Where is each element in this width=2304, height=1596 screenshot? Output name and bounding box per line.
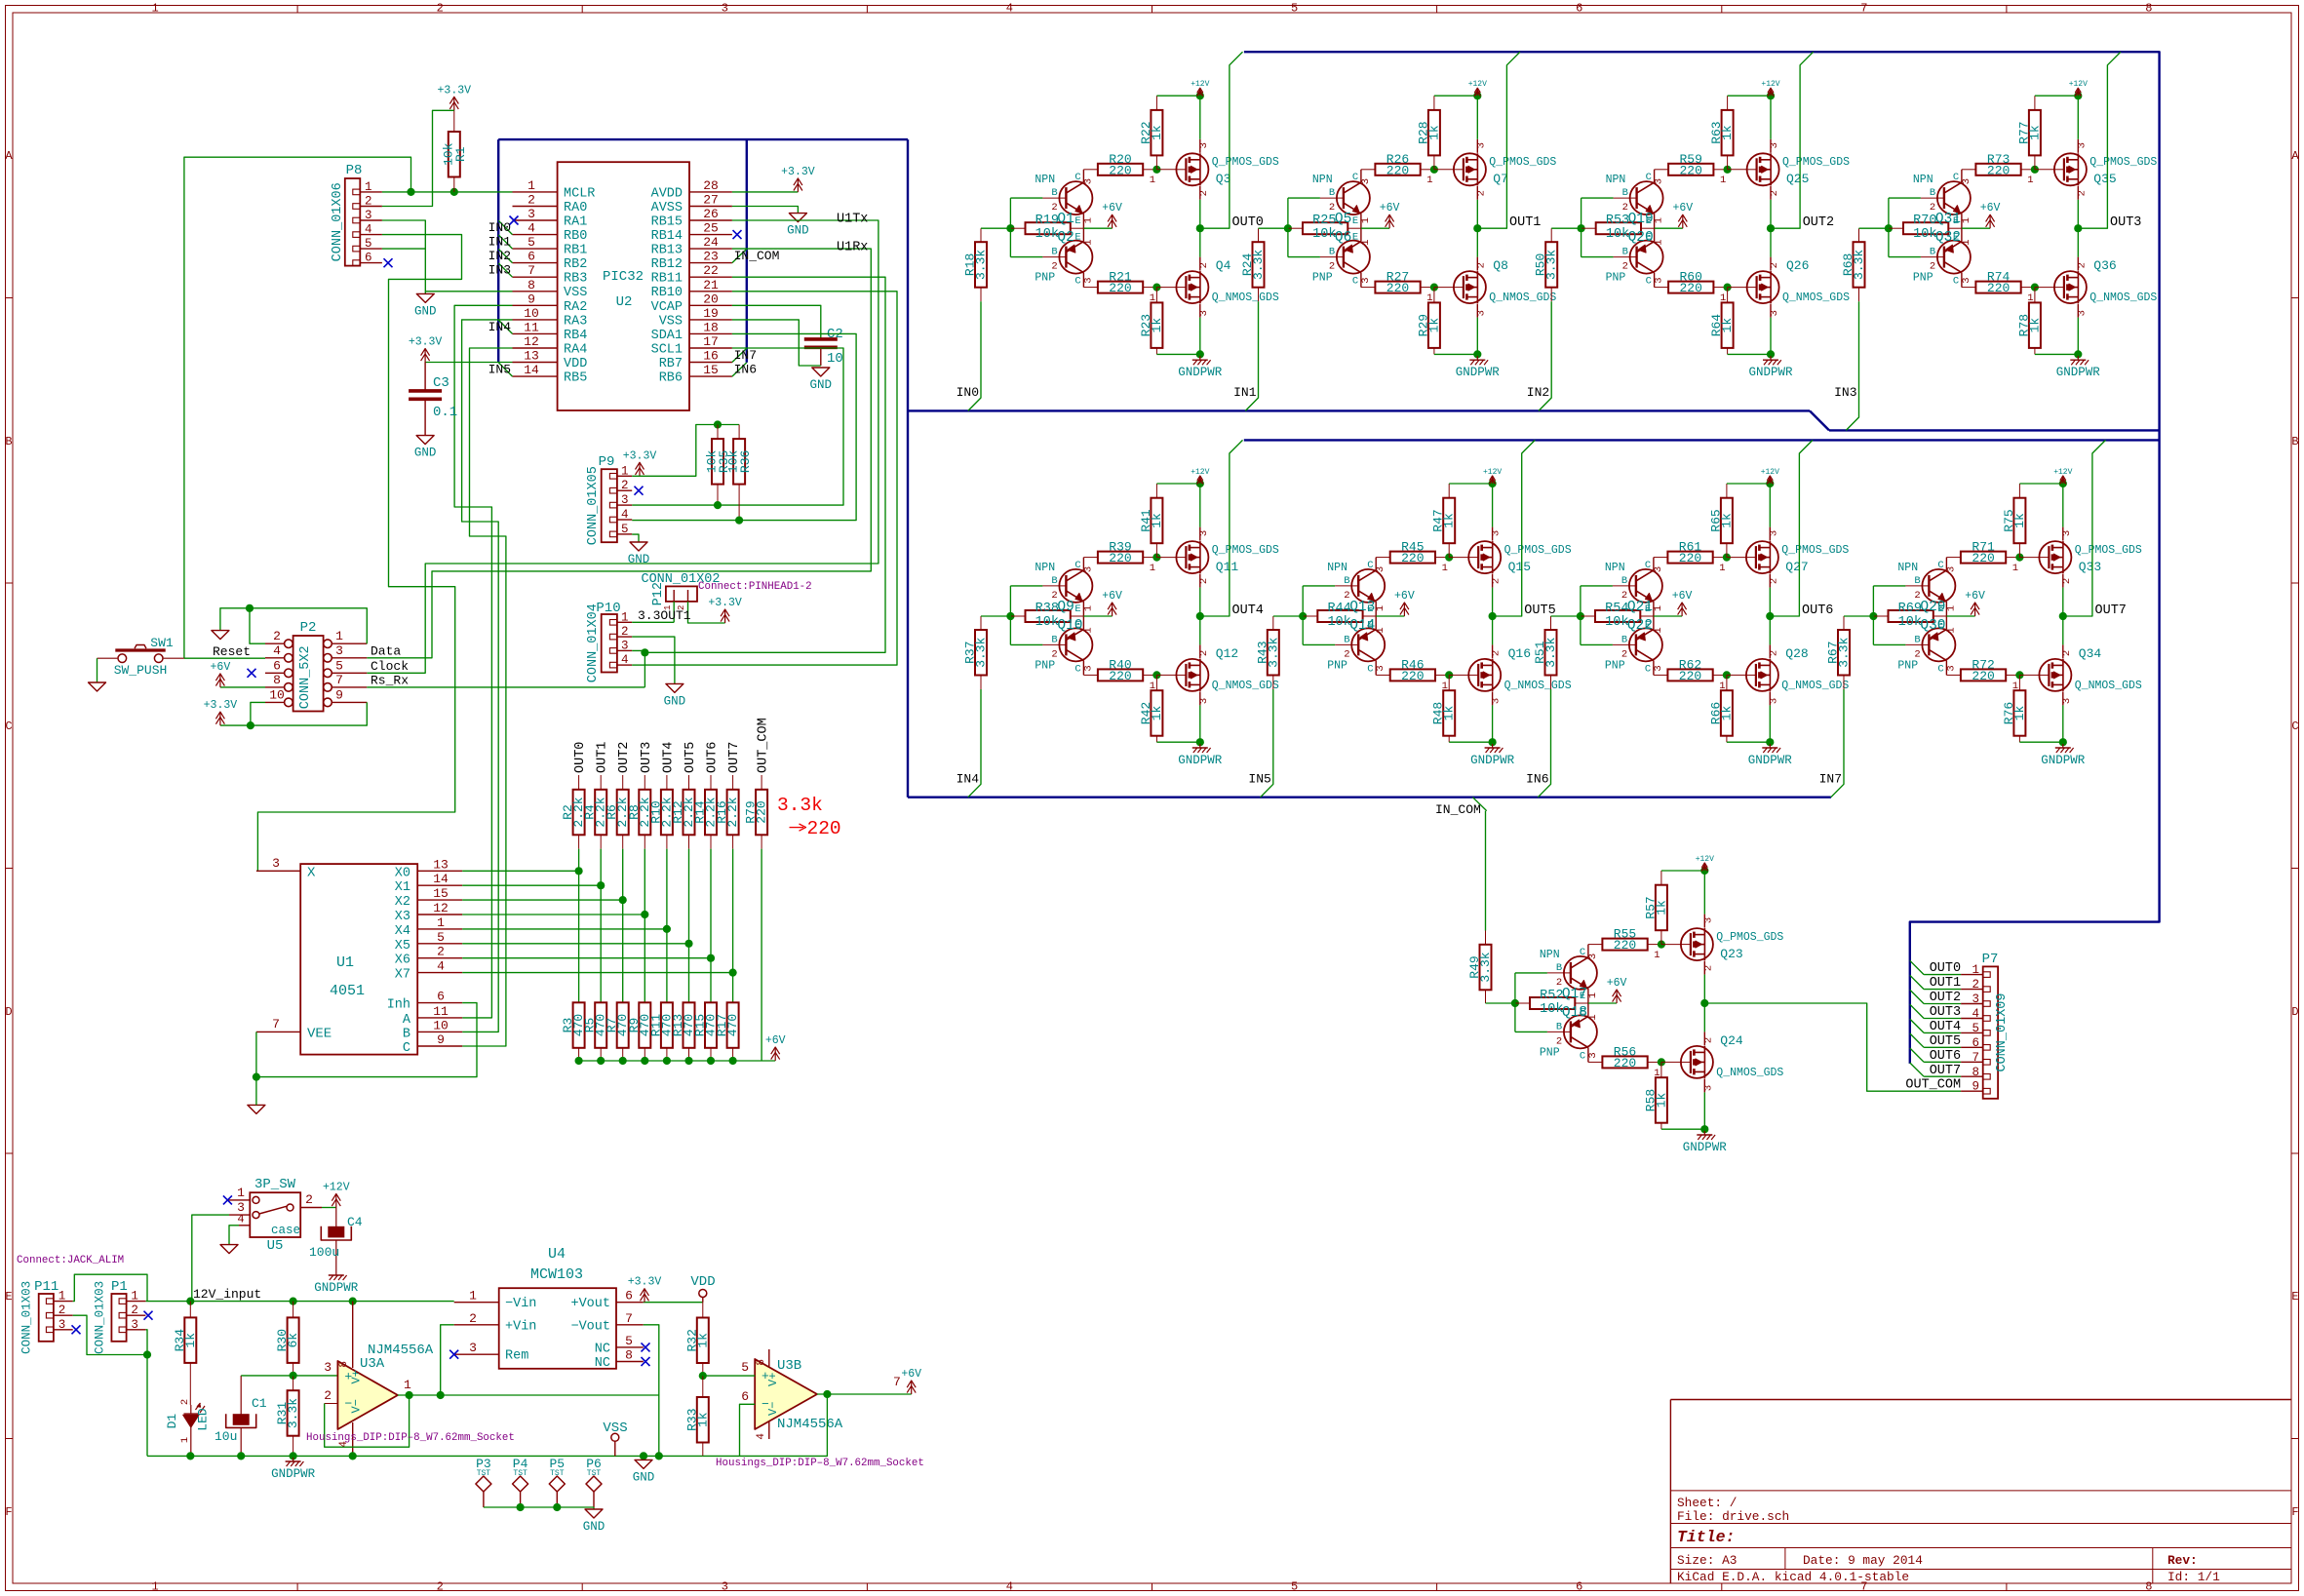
svg-text:3: 3 — [1653, 665, 1664, 671]
ground GNDPWR (block 3) — [1748, 356, 1793, 379]
svg-text:RB14: RB14 — [651, 229, 683, 244]
svg-text:Q_PMOS_GDS: Q_PMOS_GDS — [2089, 156, 2157, 169]
svg-text:E: E — [1645, 619, 1651, 631]
svg-text:GNDPWR: GNDPWR — [1470, 754, 1515, 767]
wire PMOS drain to OUT (block 5) — [1199, 588, 1201, 616]
transistor Q4 Q_NMOS_GDS (block 1) — [1150, 257, 1279, 318]
svg-text:1: 1 — [2027, 175, 2033, 186]
svg-text:C: C — [2291, 720, 2298, 733]
svg-text:Q_PMOS_GDS: Q_PMOS_GDS — [1781, 544, 1849, 557]
node OUT1 label — [1509, 215, 1541, 230]
svg-text:+12V: +12V — [1191, 80, 1209, 89]
resistor R57 1k (pull-up, block 9) — [1643, 871, 1668, 945]
svg-text:2: 2 — [365, 195, 372, 209]
svg-text:22: 22 — [703, 263, 719, 278]
ground GNDPWR at rail — [271, 1458, 316, 1481]
node IN2 label — [1527, 385, 1549, 400]
svg-text:E: E — [1367, 619, 1373, 631]
svg-text:Q_PMOS_GDS: Q_PMOS_GDS — [1489, 156, 1556, 169]
wire bus entry IN_COM at PIC right — [732, 249, 747, 262]
svg-text:2: 2 — [621, 625, 629, 639]
svg-text:Housings_DIP:DIP‒8_W7.62mm_Soc: Housings_DIP:DIP‒8_W7.62mm_Socket — [306, 1432, 515, 1444]
transistor Q7 Q_PMOS_GDS (block 2) — [1426, 139, 1556, 200]
junction OUT (block 5) — [1196, 612, 1204, 620]
wire U3A out — [398, 1394, 659, 1396]
junction GNDPWR wire (block 2) — [1473, 350, 1481, 358]
wire PMOS source to +12V (block 2) — [1476, 96, 1478, 139]
wire base vertical (block 6) — [1303, 586, 1335, 645]
node OUT4 label — [1232, 603, 1264, 618]
svg-text:220: 220 — [1972, 551, 1994, 565]
capacitor C2 10 — [804, 327, 843, 367]
svg-text:4: 4 — [365, 223, 372, 237]
svg-text:X: X — [307, 865, 316, 880]
power +6V at U3B — [901, 1368, 921, 1394]
wire RA3 to U1 B — [462, 320, 513, 1032]
junction gate top (block 6) — [1445, 554, 1453, 562]
svg-text:3.3k: 3.3k — [1266, 637, 1280, 667]
svg-text:1k: 1k — [1719, 706, 1734, 721]
resistor R58 1k (pull-down, block 9) — [1643, 1062, 1668, 1129]
switch SW1 SW_PUSH — [98, 636, 184, 678]
svg-text:GND: GND — [633, 1470, 655, 1484]
wire X2 from U1 — [462, 899, 623, 901]
svg-text:P7: P7 — [1982, 952, 1999, 967]
wire +Vout to VDD — [644, 1302, 703, 1304]
svg-text:7: 7 — [1860, 2, 1867, 16]
svg-text:OUT6: OUT6 — [1802, 603, 1833, 618]
svg-text:+12V: +12V — [2069, 80, 2088, 89]
svg-text:8: 8 — [625, 1348, 633, 1363]
svg-text:−Vout: −Vout — [570, 1319, 610, 1334]
transistor Q24 Q_NMOS_GDS (block 9) — [1654, 1032, 1783, 1092]
svg-text:220: 220 — [807, 818, 841, 839]
junction GNDPWR wire (block 4) — [2074, 350, 2082, 358]
capacitor C3 0.1 — [409, 363, 457, 436]
svg-text:C: C — [1645, 663, 1651, 675]
junction gate bottom (block 3) — [1724, 284, 1732, 292]
svg-text:OUT3: OUT3 — [640, 742, 654, 773]
svg-text:3.3k: 3.3k — [1251, 250, 1266, 280]
node OUT1 label at array — [596, 742, 610, 773]
svg-text:2: 2 — [2076, 190, 2088, 196]
node OUT2 label at P7 — [1930, 991, 1961, 1005]
resistor R68 3.3k (input, block 4) — [1841, 228, 1866, 301]
ground rail bottom — [147, 1455, 703, 1457]
svg-text:GND: GND — [628, 553, 650, 566]
resistor R76 1k (pull-down, block 8) — [2002, 675, 2027, 742]
svg-text:GND: GND — [787, 224, 809, 238]
svg-text:19: 19 — [703, 306, 719, 321]
svg-text:R19: R19 — [1035, 214, 1059, 228]
wire P9 pin1 to pull-up tops — [632, 425, 739, 477]
no-connect U4 pin3 Rem — [449, 1350, 458, 1359]
svg-text:+12V: +12V — [1761, 80, 1779, 89]
transistor Q14 PNP (block 6) — [1327, 616, 1386, 675]
svg-text:2: 2 — [1329, 202, 1335, 214]
junction gate top (block 1) — [1152, 166, 1160, 174]
svg-text:6: 6 — [527, 250, 535, 264]
svg-text:Q35: Q35 — [2093, 172, 2116, 186]
resistor R16 2.2k (array top) — [715, 775, 740, 849]
junction +6V rail col 2 — [619, 1057, 627, 1065]
svg-text:TST: TST — [477, 1469, 491, 1478]
svg-text:C: C — [1367, 663, 1373, 675]
wire R24 to bus entry (block 2) — [1245, 301, 1258, 410]
svg-text:1: 1 — [1720, 175, 1726, 186]
svg-text:GND: GND — [664, 694, 686, 708]
svg-text:X5: X5 — [395, 939, 410, 954]
svg-text:3: 3 — [365, 209, 372, 222]
svg-text:VCAP: VCAP — [651, 300, 683, 315]
svg-text:B: B — [1930, 187, 1935, 199]
svg-text:1: 1 — [1945, 605, 1957, 611]
junction gate bottom (block 7) — [1723, 671, 1731, 679]
transistor Q1 NPN (block 1) — [1035, 170, 1094, 228]
wire P2 pin10 to +3.3V — [220, 702, 265, 725]
svg-text:2: 2 — [437, 2, 444, 16]
svg-text:5: 5 — [741, 1360, 749, 1375]
svg-text:2: 2 — [324, 1388, 332, 1403]
svg-text:1: 1 — [1587, 993, 1599, 998]
svg-text:B: B — [1051, 634, 1057, 645]
svg-text:2: 2 — [131, 1304, 138, 1317]
node IN0 label at PIC — [488, 220, 511, 235]
svg-text:OUT3: OUT3 — [2110, 215, 2141, 230]
wire P10 pin3 branch down — [644, 652, 645, 687]
svg-text:1k: 1k — [2027, 125, 2042, 140]
junction GNDPWR wire (block 5) — [1196, 738, 1204, 746]
power +6V (block 9) — [1607, 977, 1627, 1003]
wire array column 0 upper — [578, 849, 580, 1003]
power +12V (block 3) — [1761, 80, 1779, 96]
svg-text:1: 1 — [131, 1290, 138, 1304]
svg-text:RA3: RA3 — [564, 314, 587, 329]
svg-text:V−: V− — [766, 1402, 780, 1416]
svg-text:3.3k: 3.3k — [1478, 952, 1493, 982]
svg-text:1k: 1k — [1150, 706, 1164, 721]
svg-text:2: 2 — [1768, 578, 1779, 584]
wire NMOS source to GNDPWR (block 7) — [1769, 705, 1771, 742]
wire +6V rail — [579, 1060, 776, 1062]
svg-text:B: B — [1556, 962, 1562, 974]
wire base vertical (block 5) — [1010, 586, 1042, 645]
node OUT6 label — [1802, 603, 1833, 618]
svg-text:B: B — [1344, 634, 1349, 645]
wire OUT riser (block 4) — [2078, 52, 2121, 228]
svg-text:1: 1 — [1426, 175, 1432, 186]
ground GNDPWR (block 2) — [1456, 356, 1501, 379]
node 12V_input label — [193, 1287, 261, 1302]
transistor Q11 Q_PMOS_GDS (block 5) — [1150, 527, 1279, 588]
svg-text:Rev:: Rev: — [2167, 1553, 2198, 1568]
resistor R43 3.3k (input, block 6) — [1255, 616, 1280, 689]
junction MCLR a — [407, 188, 414, 196]
svg-text:OUT2: OUT2 — [1930, 991, 1961, 1005]
junction P9 pin3/R35 — [714, 501, 722, 509]
svg-text:1: 1 — [1653, 627, 1664, 633]
svg-text:RA1: RA1 — [564, 215, 587, 230]
wire R37 to bus entry (block 5) — [968, 689, 981, 798]
svg-text:10k: 10k — [441, 142, 455, 166]
node OUT3 label at array — [640, 742, 654, 773]
svg-text:2: 2 — [437, 945, 445, 959]
wire R68 top to base node (block 4) — [1859, 227, 1889, 229]
svg-text:220: 220 — [1972, 669, 1994, 683]
junction OUT (block 3) — [1767, 224, 1775, 232]
svg-text:E: E — [1074, 603, 1080, 615]
svg-text:13: 13 — [524, 349, 539, 364]
svg-text:2: 2 — [1914, 648, 1920, 660]
svg-text:3: 3 — [1082, 178, 1094, 184]
svg-text:3: 3 — [1375, 665, 1386, 671]
svg-text:220: 220 — [1679, 551, 1701, 565]
svg-text:X7: X7 — [395, 968, 410, 983]
wire OUT riser (block 2) — [1477, 52, 1520, 228]
resistor R51 3.3k (input, block 7) — [1533, 616, 1558, 689]
junction base node (block 5) — [1006, 612, 1014, 620]
svg-text:GNDPWR: GNDPWR — [1748, 366, 1793, 379]
svg-text:2: 2 — [1556, 1035, 1562, 1047]
svg-text:E: E — [1645, 603, 1651, 615]
svg-text:R53: R53 — [1606, 214, 1629, 228]
resistor R66 1k (pull-down, block 7) — [1708, 675, 1734, 742]
svg-text:Q_PMOS_GDS: Q_PMOS_GDS — [2075, 544, 2142, 557]
svg-text:2: 2 — [1556, 977, 1562, 989]
svg-text:1: 1 — [1360, 239, 1372, 245]
svg-text:+3.3V: +3.3V — [409, 336, 443, 349]
resistor R22 1k (pull-up, block 1) — [1139, 96, 1164, 170]
svg-text:220: 220 — [1679, 281, 1701, 295]
bus row2 bottom edge — [908, 797, 1831, 798]
svg-text:5: 5 — [1972, 1022, 1979, 1035]
junction gate top (block 7) — [1723, 554, 1731, 562]
resistor R38 10k (base, block 5) — [1010, 602, 1084, 630]
svg-text:1: 1 — [1426, 292, 1432, 304]
transistor Q28 Q_NMOS_GDS (block 7) — [1719, 644, 1849, 705]
svg-text:GND: GND — [583, 1520, 605, 1534]
svg-text:21: 21 — [703, 278, 719, 292]
wire R49 top to base node (block 9) — [1486, 1002, 1515, 1004]
svg-text:+12V: +12V — [323, 1182, 350, 1194]
svg-text:25: 25 — [703, 221, 719, 236]
resistor R59 220 (gate top, block 3) — [1655, 152, 1728, 178]
svg-text:PNP: PNP — [1897, 659, 1918, 672]
svg-text:3: 3 — [1491, 698, 1503, 704]
wire OUT riser (block 6) — [1493, 440, 1536, 616]
node OUT1 label at P7 — [1930, 976, 1961, 991]
svg-text:12V_input: 12V_input — [193, 1287, 261, 1302]
wire U3B out to +6V — [817, 1393, 912, 1395]
resistor R47 1k (pull-up, block 6) — [1431, 484, 1457, 558]
node IN7 label — [1819, 771, 1842, 786]
wire PMOS drain to OUT (block 1) — [1199, 200, 1201, 228]
no-connect P9 pin2 — [635, 487, 644, 495]
wire U1Tx/Clock net — [367, 220, 879, 673]
svg-text:TST: TST — [587, 1469, 602, 1478]
node OUT3 label at P7 — [1930, 1005, 1961, 1020]
svg-text:RB11: RB11 — [651, 272, 683, 287]
svg-text:E: E — [5, 1290, 12, 1304]
svg-text:Rs_Rx: Rs_Rx — [371, 674, 409, 688]
svg-text:3: 3 — [1587, 954, 1599, 959]
svg-text:U3B: U3B — [777, 1358, 801, 1374]
svg-text:R25: R25 — [1312, 214, 1336, 228]
svg-text:+Vout: +Vout — [570, 1297, 610, 1311]
svg-text:IN7: IN7 — [1819, 771, 1842, 786]
svg-text:GNDPWR: GNDPWR — [2056, 366, 2101, 379]
junction pull-up tops — [714, 420, 722, 428]
svg-text:3: 3 — [1082, 665, 1094, 671]
svg-text:OUT7: OUT7 — [2095, 603, 2127, 618]
bus row2 top edge — [1244, 439, 2160, 441]
svg-text:2: 2 — [1930, 202, 1935, 214]
svg-text:10: 10 — [269, 687, 285, 702]
svg-text:1: 1 — [151, 1580, 158, 1594]
svg-text:3.3k: 3.3k — [1543, 637, 1558, 667]
resistor R61 220 (gate top, block 7) — [1654, 540, 1727, 566]
resistor R26 220 (gate top, block 2) — [1361, 152, 1434, 178]
transistor Q13 NPN (block 6) — [1327, 558, 1386, 616]
svg-text:10k: 10k — [1312, 227, 1336, 242]
svg-text:2: 2 — [1702, 1037, 1714, 1043]
svg-text:Q_PMOS_GDS: Q_PMOS_GDS — [1782, 156, 1850, 169]
junction VEE gnd — [253, 1073, 260, 1081]
svg-text:X1: X1 — [395, 880, 410, 895]
svg-text:+12V: +12V — [2053, 468, 2072, 477]
svg-text:220: 220 — [1987, 163, 2010, 177]
resistor R46 220 (gate bottom, block 6) — [1376, 657, 1449, 683]
svg-text:E: E — [1074, 215, 1080, 227]
svg-text:6: 6 — [1576, 1580, 1582, 1594]
svg-text:1k: 1k — [1719, 513, 1734, 528]
junction +6V rail col 6 — [707, 1057, 715, 1065]
power +6V (block 7) — [1672, 590, 1693, 616]
svg-text:C3: C3 — [433, 375, 449, 391]
svg-text:B: B — [1622, 247, 1628, 258]
node OUT6 label at P7 — [1930, 1049, 1961, 1064]
testpoint P4 TST — [513, 1457, 528, 1507]
wire PMOS drain to OUT (block 9) — [1703, 975, 1705, 1003]
svg-text:Size: A3: Size: A3 — [1677, 1553, 1737, 1568]
svg-text:+12V: +12V — [1761, 468, 1779, 477]
junction base node (block 3) — [1578, 224, 1585, 232]
text Connect:JACK_ALIM — [17, 1255, 124, 1266]
junction +6V rail col 7 — [729, 1057, 737, 1065]
svg-text:3: 3 — [1491, 530, 1503, 536]
junction gnd rail at GND — [640, 1452, 647, 1460]
resistor R15 470 (array bottom) — [693, 1002, 719, 1061]
svg-text:IN0: IN0 — [488, 220, 511, 235]
junction gate bottom (block 8) — [2015, 671, 2023, 679]
svg-text:10k: 10k — [1327, 615, 1350, 630]
wire pull-down to GNDPWR (block 8) — [2019, 741, 2062, 743]
svg-text:3.3k: 3.3k — [974, 637, 989, 667]
svg-text:3: 3 — [1654, 178, 1665, 184]
transistor Q23 Q_PMOS_GDS (block 9) — [1654, 915, 1783, 975]
junction gate top (block 2) — [1430, 166, 1438, 174]
svg-text:1k: 1k — [2012, 706, 2027, 721]
svg-text:X6: X6 — [395, 954, 410, 968]
wire X1 from U1 — [462, 884, 601, 886]
svg-text:220: 220 — [1679, 669, 1701, 683]
junction gate top (block 9) — [1658, 941, 1665, 949]
wire pull-up to +12V (block 2) — [1434, 95, 1477, 97]
svg-text:4: 4 — [621, 508, 629, 522]
svg-text:1: 1 — [1150, 681, 1155, 692]
svg-text:4: 4 — [1972, 1007, 1979, 1021]
svg-text:0.1: 0.1 — [433, 405, 457, 420]
svg-text:1: 1 — [1719, 681, 1725, 692]
resistor R69 10k (base, block 8) — [1873, 602, 1947, 630]
transistor Q19 NPN (block 3) — [1606, 170, 1665, 228]
svg-text:+3.3V: +3.3V — [628, 1276, 662, 1289]
annotation 3.3k (red) — [777, 795, 823, 816]
svg-text:9: 9 — [1972, 1080, 1979, 1094]
svg-text:C: C — [1953, 172, 1959, 183]
svg-text:2: 2 — [1198, 190, 1210, 196]
transistor Q33 Q_PMOS_GDS (block 8) — [2012, 527, 2142, 588]
ground GND at C2 — [810, 368, 833, 392]
svg-text:Q_PMOS_GDS: Q_PMOS_GDS — [1716, 931, 1783, 944]
svg-text:2: 2 — [621, 479, 629, 492]
svg-text:U1: U1 — [336, 954, 354, 971]
svg-text:B: B — [1051, 575, 1057, 587]
svg-text:B: B — [1914, 634, 1920, 645]
resistor R73 220 (gate top, block 4) — [1962, 152, 2035, 178]
ground GNDPWR (block 9) — [1683, 1131, 1728, 1154]
svg-text:C: C — [1580, 947, 1585, 958]
bus vertical at PIC left (IN0-IN5 entries) — [497, 139, 499, 363]
svg-text:MCW103: MCW103 — [530, 1266, 583, 1283]
svg-text:3: 3 — [1702, 917, 1714, 923]
junction R32/R33 — [699, 1372, 707, 1380]
svg-text:1: 1 — [1150, 563, 1155, 574]
svg-text:Q12: Q12 — [1216, 646, 1238, 661]
wire bus entry IN5 at PIC — [498, 363, 512, 376]
svg-text:2: 2 — [1491, 578, 1503, 584]
resistor R28 1k (pull-up, block 2) — [1416, 96, 1441, 170]
svg-text:Q7: Q7 — [1493, 172, 1508, 186]
svg-text:RB15: RB15 — [651, 215, 683, 230]
resistor R30 6k — [275, 1302, 300, 1376]
junction X3 column — [641, 911, 648, 918]
junction X2 column — [619, 896, 627, 904]
svg-text:3P_SW: 3P_SW — [254, 1177, 296, 1192]
junction GNDPWR wire (block 9) — [1700, 1125, 1708, 1133]
svg-text:U1Tx: U1Tx — [837, 213, 868, 227]
svg-text:RA4: RA4 — [564, 343, 587, 358]
svg-text:2: 2 — [2076, 262, 2088, 268]
wire emitters to +6V (block 3) — [1655, 227, 1683, 229]
svg-text:+3.3V: +3.3V — [623, 449, 657, 462]
junction +12V (block 3) — [1767, 92, 1775, 99]
svg-text:C: C — [1074, 663, 1080, 675]
node IN_COM label — [1435, 802, 1481, 817]
power +3.3V at R1 — [438, 84, 472, 110]
svg-text:1: 1 — [1961, 217, 1972, 223]
svg-text:2: 2 — [1768, 650, 1779, 656]
resistor R37 3.3k (input, block 5) — [963, 616, 989, 689]
svg-text:1: 1 — [621, 464, 629, 478]
svg-text:RB5: RB5 — [564, 371, 587, 386]
svg-text:Connect:JACK_ALIM: Connect:JACK_ALIM — [17, 1255, 124, 1266]
svg-text:16: 16 — [703, 349, 719, 364]
ic U1 4051 — [256, 856, 462, 1056]
resistor R70 10k (base, block 4) — [1889, 214, 1963, 242]
wire NMOS drain to OUT (block 5) — [1199, 616, 1201, 644]
svg-text:Q8: Q8 — [1493, 258, 1508, 273]
